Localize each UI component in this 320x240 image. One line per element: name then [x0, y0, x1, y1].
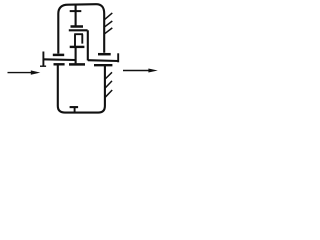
- inner bracket gear: [74, 34, 83, 47]
- carrier frame top (rounded housing upper part): [58, 4, 104, 53]
- input shaft line: [43, 58, 76, 61]
- carrier frame bottom (rounded housing lower part): [58, 65, 105, 112]
- output shaft bearing tick: [117, 53, 119, 62]
- bottom bearing bar: [70, 106, 79, 108]
- output arrow: [123, 69, 158, 73]
- bottom bearing stem: [74, 107, 76, 112]
- central gear shaft upper: [75, 5, 77, 26]
- tick bar on central shaft: [70, 10, 82, 12]
- gear T-bar central lower: [69, 63, 85, 66]
- input bearing foot: [40, 65, 46, 67]
- output shaft line: [88, 59, 119, 62]
- ground hatching bottom right: [105, 72, 112, 97]
- gear T-bar central: [71, 25, 84, 28]
- gear bar left sun: [53, 54, 64, 57]
- input shaft bearing tick: [42, 52, 44, 67]
- input arrow: [8, 70, 41, 74]
- ground hatching top right: [105, 13, 113, 34]
- gear bar lower left: [54, 63, 65, 65]
- central gear shaft lower: [75, 47, 77, 63]
- crossbar gear: [70, 46, 85, 48]
- gear bar right ring: [98, 53, 111, 56]
- wide bar below central gear: [69, 29, 88, 31]
- gear bar lower right: [94, 64, 112, 66]
- right hook vertical: [87, 30, 89, 60]
